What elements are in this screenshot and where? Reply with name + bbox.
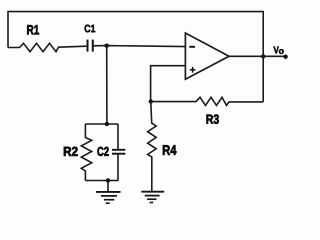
capacitor C2	[117, 124, 119, 181]
resistor R1	[8, 43, 86, 51]
wire node A down to RC tank	[106, 46, 108, 124]
wire tank ground stem	[107, 181, 109, 192]
wire non-inverting input to node B	[151, 66, 186, 102]
op-amp U1 inverting pin mark	[189, 46, 195, 48]
wire tank top rail	[85, 123, 118, 125]
node B junction	[149, 99, 153, 103]
label R2	[64, 147, 78, 156]
resistor R3	[151, 97, 263, 105]
node tank top junction	[105, 122, 109, 126]
resistor R4	[148, 102, 157, 192]
node output junction	[261, 54, 265, 58]
node A junction after C1	[105, 44, 109, 48]
op-amp U1 non-inverting pin mark	[190, 67, 196, 73]
resistor R2	[81, 124, 91, 181]
wire left vertical	[7, 11, 9, 48]
capacitor C1	[88, 40, 93, 52]
node tank bottom junction	[106, 178, 110, 182]
label R4	[163, 145, 177, 154]
label R1	[27, 25, 39, 34]
label C2	[97, 147, 108, 156]
ground under tank	[96, 192, 121, 203]
ground under R4	[141, 192, 164, 203]
wire C1 to inverting input	[94, 46, 186, 47]
terminal Vo dot	[283, 55, 287, 59]
wire op-amp output	[229, 55, 286, 57]
label C1	[85, 25, 96, 33]
wire tank bottom rail	[85, 180, 118, 182]
wire right vertical (output to feedback)	[262, 11, 264, 102]
label Vo	[273, 46, 283, 54]
wire top feedback rail	[8, 11, 263, 13]
op-amp U1	[185, 33, 229, 79]
label R3	[207, 114, 219, 123]
